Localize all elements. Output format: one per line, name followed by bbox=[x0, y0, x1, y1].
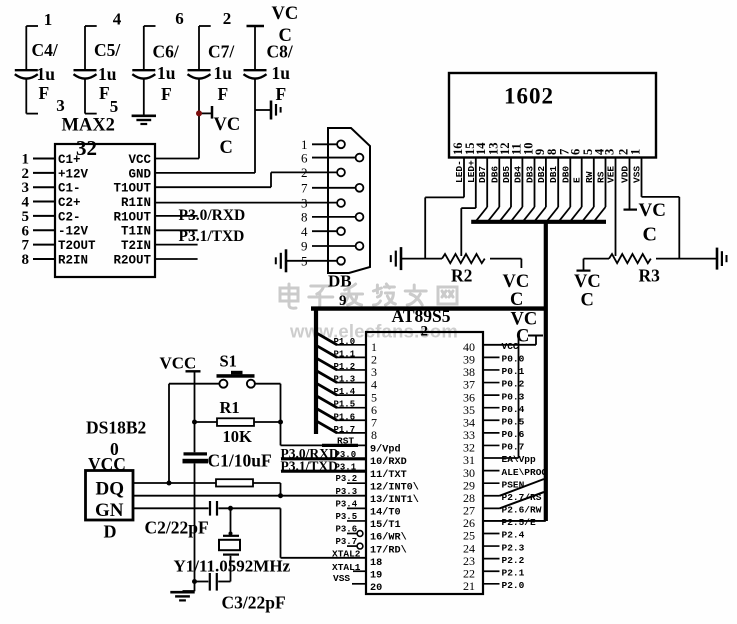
svg-text:P1.5: P1.5 bbox=[334, 400, 356, 410]
svg-text:14/T0: 14/T0 bbox=[370, 507, 401, 519]
svg-text:8: 8 bbox=[301, 210, 308, 225]
svg-text:P1.1: P1.1 bbox=[334, 349, 356, 359]
svg-text:3: 3 bbox=[603, 149, 617, 155]
svg-text:F: F bbox=[161, 84, 172, 104]
svg-text:16/WR\: 16/WR\ bbox=[370, 532, 407, 544]
svg-text:19: 19 bbox=[370, 570, 382, 581]
svg-text:2: 2 bbox=[223, 9, 232, 28]
svg-text:3: 3 bbox=[56, 96, 65, 115]
svg-text:F: F bbox=[218, 84, 229, 104]
svg-text:C: C bbox=[581, 291, 594, 311]
svg-text:P0.2: P0.2 bbox=[502, 379, 525, 390]
svg-text:C: C bbox=[643, 224, 657, 246]
svg-text:C7/: C7/ bbox=[208, 42, 235, 62]
svg-text:11/TXT: 11/TXT bbox=[370, 469, 407, 481]
svg-text:8: 8 bbox=[22, 252, 30, 268]
svg-text:VC: VC bbox=[574, 272, 601, 292]
svg-text:T1IN: T1IN bbox=[121, 225, 151, 239]
svg-text:R1: R1 bbox=[220, 398, 240, 417]
svg-text:9/Vpd: 9/Vpd bbox=[370, 444, 401, 456]
svg-text:R1IN: R1IN bbox=[121, 196, 151, 210]
svg-text:DB: DB bbox=[328, 272, 352, 291]
svg-text:C6/: C6/ bbox=[153, 42, 180, 62]
svg-text:1u: 1u bbox=[98, 64, 117, 84]
svg-text:3: 3 bbox=[301, 196, 308, 211]
svg-text:9: 9 bbox=[301, 239, 308, 254]
svg-text:P0.1: P0.1 bbox=[502, 366, 525, 377]
svg-text:D: D bbox=[104, 522, 117, 542]
svg-text:MAX2: MAX2 bbox=[62, 116, 115, 136]
svg-text:T1OUT: T1OUT bbox=[113, 182, 151, 196]
svg-text:C3/22pF: C3/22pF bbox=[222, 593, 286, 613]
svg-text:C2+: C2+ bbox=[58, 196, 81, 210]
svg-text:P0.5: P0.5 bbox=[502, 416, 525, 427]
svg-text:R1OUT: R1OUT bbox=[113, 210, 151, 224]
svg-text:VC: VC bbox=[214, 115, 241, 135]
svg-text:P2.1: P2.1 bbox=[502, 567, 525, 578]
svg-text:R2IN: R2IN bbox=[58, 253, 88, 267]
svg-text:P2.4: P2.4 bbox=[502, 530, 525, 541]
svg-text:P0.7: P0.7 bbox=[502, 442, 525, 453]
svg-text:P1.0: P1.0 bbox=[334, 337, 356, 347]
svg-text:7: 7 bbox=[301, 180, 308, 195]
svg-text:+12V: +12V bbox=[58, 167, 89, 181]
svg-text:C5/: C5/ bbox=[94, 40, 121, 60]
svg-text:1: 1 bbox=[629, 149, 643, 155]
svg-text:C: C bbox=[220, 138, 233, 158]
svg-text:1: 1 bbox=[44, 10, 53, 29]
svg-text:5: 5 bbox=[110, 97, 119, 116]
svg-text:1u: 1u bbox=[157, 63, 176, 83]
svg-text:C: C bbox=[510, 290, 523, 310]
svg-text:VC: VC bbox=[272, 4, 299, 24]
svg-text:10/RXD: 10/RXD bbox=[370, 456, 407, 468]
svg-text:R2: R2 bbox=[451, 266, 472, 286]
svg-text:C2/22pF: C2/22pF bbox=[145, 518, 209, 538]
svg-text:R2OUT: R2OUT bbox=[113, 253, 151, 267]
svg-text:C2-: C2- bbox=[58, 210, 81, 224]
svg-text:PSEN: PSEN bbox=[502, 479, 525, 490]
svg-text:4: 4 bbox=[113, 10, 122, 29]
svg-text:4: 4 bbox=[301, 224, 308, 239]
svg-text:T2IN: T2IN bbox=[121, 239, 151, 253]
svg-text:17/RD\: 17/RD\ bbox=[370, 544, 407, 556]
svg-text:P1.6: P1.6 bbox=[334, 412, 356, 422]
svg-text:GN: GN bbox=[95, 500, 124, 521]
svg-text:VSS: VSS bbox=[333, 573, 350, 584]
svg-text:S1: S1 bbox=[220, 352, 237, 371]
svg-text:P2.5/E: P2.5/E bbox=[502, 517, 537, 528]
svg-text:P1.4: P1.4 bbox=[334, 387, 356, 397]
svg-text:C: C bbox=[516, 327, 529, 347]
svg-text:C4/: C4/ bbox=[32, 40, 59, 60]
svg-text:P1.7: P1.7 bbox=[334, 425, 356, 435]
svg-text:18: 18 bbox=[370, 558, 382, 569]
svg-text:20: 20 bbox=[370, 583, 382, 594]
svg-text:DQ: DQ bbox=[96, 479, 125, 500]
svg-text:2: 2 bbox=[301, 165, 308, 180]
svg-text:VC: VC bbox=[639, 200, 666, 221]
svg-text:P0.6: P0.6 bbox=[502, 429, 525, 440]
svg-text:-12V: -12V bbox=[58, 225, 89, 239]
svg-text:12/INT0\: 12/INT0\ bbox=[370, 481, 419, 493]
svg-text:C1+: C1+ bbox=[58, 153, 81, 167]
svg-text:10K: 10K bbox=[223, 427, 253, 446]
svg-text:2: 2 bbox=[421, 324, 429, 340]
svg-text:P2.0: P2.0 bbox=[502, 580, 525, 591]
svg-text:DS18B2: DS18B2 bbox=[86, 418, 146, 438]
svg-text:15/T1: 15/T1 bbox=[370, 519, 401, 531]
svg-text:VCC: VCC bbox=[128, 153, 151, 167]
svg-text:T2OUT: T2OUT bbox=[58, 239, 96, 253]
svg-text:1u: 1u bbox=[37, 64, 56, 84]
svg-text:Y1/11.0592MHz: Y1/11.0592MHz bbox=[174, 557, 291, 576]
svg-text:P3.0/RXD: P3.0/RXD bbox=[179, 207, 246, 224]
svg-text:F: F bbox=[99, 83, 110, 103]
svg-text:P0.3: P0.3 bbox=[502, 391, 525, 402]
svg-text:6: 6 bbox=[301, 150, 308, 165]
svg-text:6: 6 bbox=[175, 9, 184, 28]
svg-text:R3: R3 bbox=[639, 266, 661, 286]
svg-text:F: F bbox=[39, 83, 50, 103]
svg-text:P1.3: P1.3 bbox=[334, 375, 356, 385]
svg-text:C1-: C1- bbox=[58, 182, 81, 196]
svg-text:P2.3: P2.3 bbox=[502, 542, 525, 553]
svg-text:C1/10uF: C1/10uF bbox=[208, 451, 272, 471]
svg-text:P2.2: P2.2 bbox=[502, 555, 525, 566]
svg-text:13/INT1\: 13/INT1\ bbox=[370, 494, 419, 506]
svg-text:1u: 1u bbox=[214, 63, 233, 83]
svg-text:1602: 1602 bbox=[504, 84, 554, 109]
svg-text:8: 8 bbox=[371, 428, 377, 442]
svg-text:21: 21 bbox=[463, 579, 475, 593]
svg-text:1u: 1u bbox=[272, 63, 291, 83]
svg-text:P3.1/TXD: P3.1/TXD bbox=[281, 459, 339, 474]
svg-text:ALE\PROG: ALE\PROG bbox=[502, 467, 548, 478]
svg-text:P0.0: P0.0 bbox=[502, 354, 525, 365]
svg-text:P0.4: P0.4 bbox=[502, 404, 525, 415]
svg-text:GND: GND bbox=[128, 167, 151, 181]
svg-text:C: C bbox=[279, 26, 292, 46]
svg-text:F: F bbox=[276, 84, 287, 104]
svg-text:P1.2: P1.2 bbox=[334, 362, 356, 372]
svg-text:VCC: VCC bbox=[160, 354, 197, 373]
svg-text:P3.1/TXD: P3.1/TXD bbox=[179, 228, 245, 245]
